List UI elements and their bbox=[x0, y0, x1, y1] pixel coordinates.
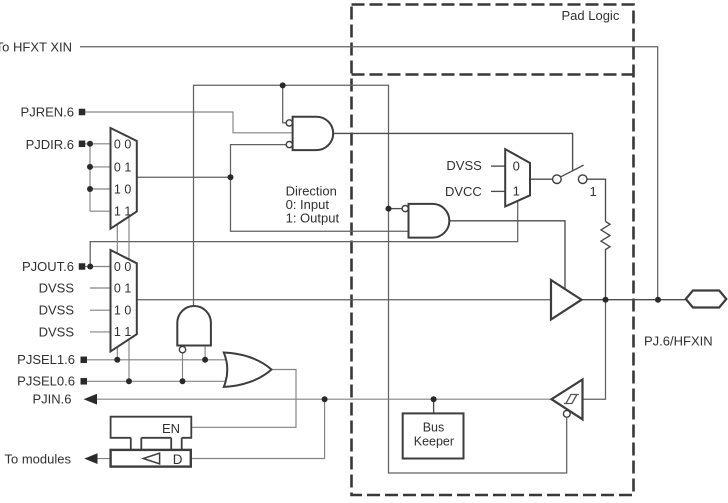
svg-text:To modules: To modules bbox=[5, 452, 72, 467]
svg-text:PJ.6/HFXIN: PJ.6/HFXIN bbox=[644, 333, 713, 348]
svg-text:DVSS: DVSS bbox=[39, 303, 75, 318]
svg-text:PJDIR.6: PJDIR.6 bbox=[26, 137, 74, 152]
svg-text:PJOUT.6: PJOUT.6 bbox=[22, 259, 74, 274]
svg-text:Pad Logic: Pad Logic bbox=[562, 8, 620, 23]
svg-text:0 0: 0 0 bbox=[114, 260, 131, 274]
svg-text:0 1: 0 1 bbox=[114, 160, 131, 174]
svg-text:DVCC: DVCC bbox=[445, 184, 482, 199]
svg-text:Keeper: Keeper bbox=[414, 434, 454, 448]
svg-text:1 1: 1 1 bbox=[114, 205, 131, 219]
svg-text:1: 1 bbox=[590, 184, 597, 199]
svg-text:PJSEL1.6: PJSEL1.6 bbox=[17, 352, 75, 367]
svg-text:1 0: 1 0 bbox=[114, 182, 131, 196]
svg-text:PJIN.6: PJIN.6 bbox=[32, 392, 71, 407]
svg-text:DVSS: DVSS bbox=[39, 280, 75, 295]
svg-text:Bus: Bus bbox=[423, 420, 445, 434]
svg-text:1: 1 bbox=[513, 184, 520, 199]
svg-text:To HFXT XIN: To HFXT XIN bbox=[0, 40, 72, 55]
svg-text:1 1: 1 1 bbox=[114, 325, 131, 339]
svg-text:0 1: 0 1 bbox=[114, 281, 131, 295]
svg-text:DVSS: DVSS bbox=[446, 158, 482, 173]
svg-text:EN: EN bbox=[162, 421, 180, 436]
svg-text:PJREN.6: PJREN.6 bbox=[21, 104, 74, 119]
svg-text:D: D bbox=[173, 452, 183, 467]
svg-text:DVSS: DVSS bbox=[39, 324, 75, 339]
svg-text:1 0: 1 0 bbox=[114, 304, 131, 318]
svg-text:1: Output: 1: Output bbox=[286, 211, 340, 226]
svg-text:0 0: 0 0 bbox=[114, 138, 131, 152]
svg-text:0: 0 bbox=[513, 158, 520, 173]
svg-text:PJSEL0.6: PJSEL0.6 bbox=[17, 374, 75, 389]
